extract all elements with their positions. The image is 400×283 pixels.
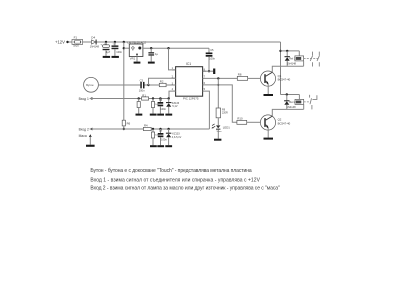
svg-text:Rel 2: Rel 2	[289, 100, 296, 104]
capacitor C4	[148, 48, 158, 61]
svg-text:1µ: 1µ	[155, 52, 158, 56]
node junction dot D5 top	[286, 50, 288, 52]
node junction dot +12V	[66, 41, 68, 43]
ground C6	[157, 114, 164, 116]
svg-text:Бутон - бутона е с докосване ": Бутон - бутона е с докосване "Touch" - п…	[90, 168, 252, 174]
svg-text:1N4148: 1N4148	[90, 45, 100, 49]
voltage regulator VR1	[127, 41, 146, 61]
node junction dot D2	[167, 128, 169, 130]
node junction dot pin8	[208, 70, 210, 72]
resistor R5 (divider input1)	[151, 99, 159, 114]
svg-text:C5: C5	[210, 48, 214, 52]
LED LED1	[212, 124, 231, 139]
svg-text:R8: R8	[238, 72, 242, 76]
svg-text:C6: C6	[159, 99, 163, 102]
capacitor C5	[206, 48, 216, 71]
wire to IC pin2	[149, 78, 176, 85]
wire IC pin7 to R8	[203, 77, 238, 79]
resistor R7 (divider input2)	[151, 129, 159, 145]
ground C4	[148, 62, 155, 64]
wire pin8	[203, 70, 214, 72]
svg-text:5x20: 5x20	[73, 44, 79, 48]
node junction dot C1	[105, 41, 107, 43]
svg-text:5,1V: 5,1V	[172, 105, 177, 108]
wire VR1 ground	[136, 57, 138, 62]
node junction dot C7	[159, 128, 161, 130]
node junction dot input1 divider	[152, 97, 154, 99]
button (touch) circle	[84, 77, 99, 92]
capacitor C3	[139, 78, 149, 92]
svg-text:Вход 1 - взима сигнал от съеди: Вход 1 - взима сигнал от съединителя или…	[90, 178, 260, 184]
svg-text:Маса: Маса	[79, 134, 87, 138]
svg-text:R4: R4	[144, 123, 148, 127]
svg-text:4µ7: 4µ7	[106, 50, 111, 54]
ground R7	[150, 145, 157, 147]
diode D6 (flyback relay2)	[284, 95, 296, 110]
svg-text:Вход 2 - взима сигнал от лампа: Вход 2 - взима сигнал от лампа за масло …	[90, 185, 280, 191]
node junction dot regulator input	[123, 47, 125, 49]
wire relay1 contact link	[304, 57, 320, 59]
resistor R1 (series input1)	[142, 93, 149, 100]
node junction dot relay1 12V	[279, 50, 281, 52]
wire relay1 top	[281, 50, 300, 52]
node junction dot C6	[159, 97, 161, 99]
wire Q1 collector	[272, 66, 303, 72]
wire R8 to Q1 base	[248, 77, 261, 79]
node junction dot pin7	[217, 77, 219, 79]
diode D5 (flyback relay1)	[285, 51, 297, 66]
svg-text:R6: R6	[127, 121, 131, 125]
capacitor C7	[158, 129, 168, 145]
wire Q2 emitter	[267, 128, 269, 138]
svg-text:1N4148: 1N4148	[287, 105, 297, 109]
svg-text:100n: 100n	[116, 50, 122, 54]
resistor R10	[237, 116, 247, 124]
wire relay2 contact link	[304, 101, 311, 103]
svg-text:100n: 100n	[160, 107, 166, 111]
relay1 contact a	[310, 52, 313, 67]
wire regulator input	[124, 47, 130, 49]
relay2 contact blade	[310, 95, 312, 110]
wire LED branch down	[217, 78, 219, 108]
node junction dot C3 out	[147, 84, 149, 86]
ground Q2	[264, 138, 274, 140]
wire Q2 collector	[272, 109, 303, 116]
svg-text:Вход 1: Вход 1	[79, 97, 89, 101]
svg-text:4,3-5,1V: 4,3-5,1V	[172, 136, 182, 139]
svg-text:+12V: +12V	[55, 39, 65, 44]
wire +12V vertical right	[280, 42, 282, 95]
wire relay2 top	[281, 94, 300, 96]
node junction dot R3	[138, 97, 140, 99]
ground Q1	[264, 94, 274, 96]
wire IC pin6 to R10	[203, 85, 237, 122]
svg-text:100n: 100n	[139, 89, 145, 93]
svg-text:C3: C3	[140, 78, 144, 82]
svg-text:100n: 100n	[161, 138, 167, 142]
node arrow Вход 1	[89, 97, 92, 100]
svg-text:R1: R1	[142, 93, 146, 97]
transistor Q1	[260, 71, 290, 86]
svg-text:Вход 2: Вход 2	[79, 127, 89, 131]
svg-text:C7: C7	[159, 130, 163, 133]
svg-text:R10: R10	[237, 116, 243, 120]
fuse F1	[72, 36, 83, 48]
node junction dot input2 divider	[152, 128, 154, 130]
svg-text:LED1: LED1	[223, 125, 230, 129]
node arrow Вход 2	[89, 128, 92, 131]
wire Вход 1 line	[90, 98, 169, 100]
svg-text:+: +	[100, 43, 102, 47]
ground C2	[112, 56, 119, 58]
ground Маса	[86, 145, 95, 147]
svg-text:5mm: 5mm	[217, 131, 222, 133]
wire button to C3	[98, 84, 140, 86]
svg-text:R2: R2	[160, 80, 164, 84]
ground C7	[157, 145, 164, 147]
svg-text:1N4148: 1N4148	[287, 61, 297, 65]
resistor R2	[149, 80, 176, 87]
diode D4	[90, 35, 100, 48]
resistor R6 (pullup to input2)	[122, 120, 130, 129]
svg-text:F1: F1	[74, 36, 78, 40]
relay coil Rel1	[289, 51, 303, 66]
zener diode D2	[166, 129, 182, 145]
node junction dot C4	[150, 47, 152, 49]
relay2 contact terminal NC	[313, 95, 317, 99]
svg-text:Бутон: Бутон	[86, 83, 94, 87]
wire IC pin5 to input2 line	[203, 91, 210, 129]
wire +12V rail	[67, 41, 281, 43]
capacitor C2	[112, 42, 123, 56]
node junction dot x124 rail	[123, 41, 125, 43]
wire IC pin4 to input1	[169, 91, 176, 98]
wire to IC pin1	[169, 48, 176, 70]
resistor R9 (LED series)	[216, 108, 228, 125]
svg-text:VR1: VR1	[130, 56, 136, 60]
node junction dot pin1 supply	[167, 47, 169, 49]
transistor Q2	[260, 115, 290, 130]
node junction dot input2 pullup	[123, 128, 125, 130]
svg-text:4: 4	[172, 88, 174, 91]
node arrow Маса	[89, 134, 92, 137]
svg-text:C2: C2	[113, 43, 117, 45]
resistor R4 (series input2)	[143, 123, 151, 130]
capacitor C1	[100, 42, 110, 56]
relay1 contact b	[317, 52, 320, 67]
node crossing dot pin6/LED column	[217, 84, 219, 86]
svg-text:100n: 100n	[209, 56, 215, 60]
svg-text:PIC 12F675: PIC 12F675	[183, 96, 199, 100]
node junction dot D6 top	[286, 93, 288, 95]
pin stubs left	[172, 69, 176, 71]
relay coil Rel2	[289, 95, 303, 110]
svg-text:BC547-40: BC547-40	[278, 121, 291, 125]
svg-text:Rel 1: Rel 1	[289, 56, 296, 60]
svg-text:5: 5	[204, 88, 206, 91]
svg-text:LM 78L05 ACZ: LM 78L05 ACZ	[127, 41, 146, 45]
ground LED1	[214, 139, 221, 141]
resistor R3 (pulldown input1)	[137, 99, 140, 114]
wire R10 to Q2 base	[247, 121, 261, 123]
op-amp IC1 box (PIC 12F675)	[172, 62, 206, 101]
resistor R8	[237, 72, 247, 80]
svg-text:BC547-40: BC547-40	[278, 78, 291, 82]
svg-text:IC1: IC1	[186, 62, 191, 66]
node junction dot C2	[114, 41, 116, 43]
ground pin8 (rotated bar)	[213, 69, 215, 75]
ground R5	[150, 114, 157, 116]
wire Маса to ground	[89, 137, 91, 145]
ground C1	[103, 56, 110, 58]
svg-text:D4: D4	[91, 35, 95, 39]
zener diode D3	[166, 99, 180, 114]
wire 12V drop to regulator and input2 pullup	[123, 42, 125, 120]
ground D2	[165, 145, 172, 147]
ground VR1	[134, 62, 141, 64]
ground R3	[136, 114, 143, 116]
wire Вход 2 line	[90, 128, 209, 130]
node junction dot D3	[168, 97, 170, 99]
svg-text:220R: 220R	[222, 112, 228, 115]
capacitor C6	[158, 99, 167, 114]
ground D3	[165, 114, 172, 116]
wire +5V line	[143, 47, 209, 49]
wire Q1 emitter	[267, 84, 269, 94]
